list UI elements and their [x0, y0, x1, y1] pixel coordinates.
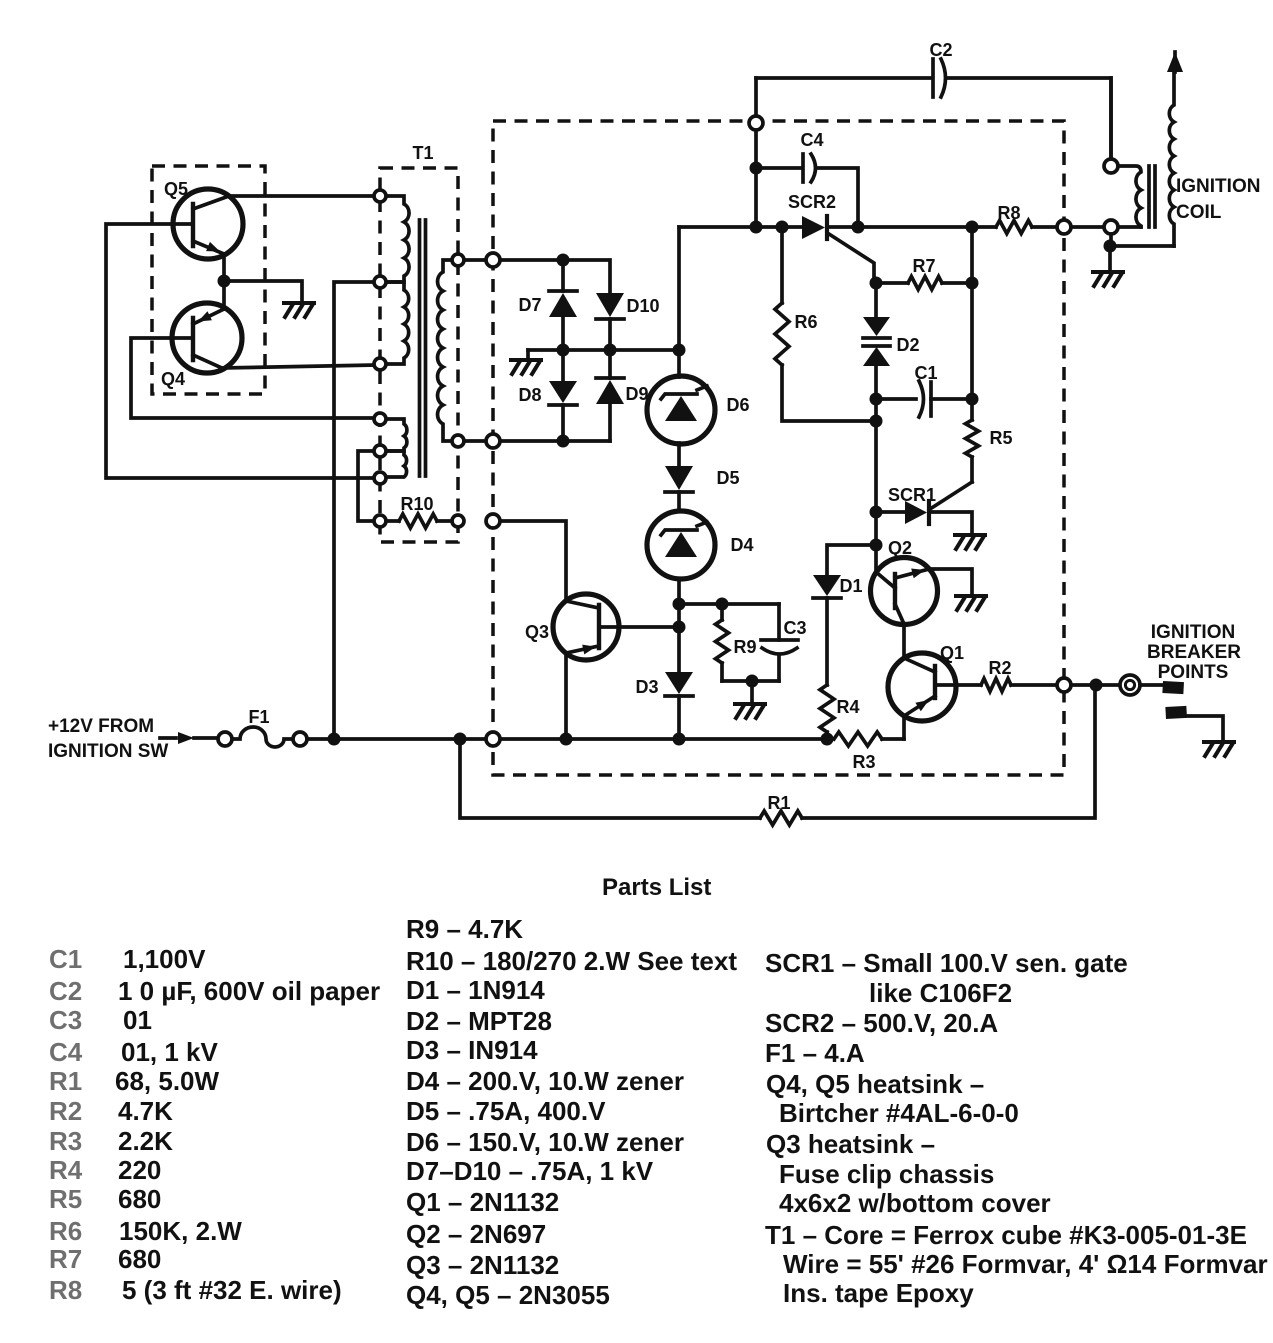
wire D6 to D5 [677, 443, 681, 466]
resistor R10 [386, 519, 399, 523]
svg-text:D3: D3 [635, 677, 658, 697]
wire bridge mid to ground [526, 350, 530, 359]
dashed enclosure around Q4 Q5 [152, 166, 265, 394]
T1 core [418, 220, 422, 476]
node R7 right [966, 277, 979, 290]
fuse F1 [218, 732, 232, 746]
svg-text:01: 01 [123, 1005, 152, 1035]
svg-text:2.2K: 2.2K [118, 1126, 173, 1156]
svg-text:D6: D6 [726, 395, 749, 415]
svg-text:D9: D9 [625, 384, 648, 404]
svg-text:D7–D10 – .75A, 1 kV: D7–D10 – .75A, 1 kV [406, 1156, 654, 1186]
svg-text:D7: D7 [518, 295, 541, 315]
ground (breaker points) [1204, 742, 1234, 756]
node R7 left [870, 277, 883, 290]
svg-text:R7: R7 [912, 256, 935, 276]
wire T1 primary center tap to +12V rail [334, 282, 374, 739]
svg-text:C1: C1 [914, 363, 937, 383]
wire +12V rail [307, 737, 486, 741]
resistor R8 [996, 221, 1032, 234]
svg-text:680: 680 [118, 1184, 161, 1214]
svg-text:SCR2: SCR2 [788, 192, 836, 212]
ground (R9/C3) [735, 704, 765, 718]
wire emitter junction to ground [224, 281, 302, 302]
high tension arrow [1167, 52, 1183, 72]
diode D3 [665, 672, 693, 694]
svg-text:SCR1 – Small 100.V sen. gate: SCR1 – Small 100.V sen. gate [765, 948, 1128, 978]
svg-text:R4: R4 [836, 697, 859, 717]
svg-text:R7: R7 [49, 1244, 82, 1274]
svg-text:01, 1 kV: 01, 1 kV [121, 1037, 219, 1067]
svg-text:Q4: Q4 [161, 369, 185, 389]
wire lower contact to ground [1186, 716, 1223, 740]
node D1 branch [870, 539, 883, 552]
wire coil secondary return [1110, 244, 1174, 248]
svg-text:D10: D10 [626, 296, 659, 316]
ground (bridge) [511, 360, 541, 374]
svg-text:68, 5.0W: 68, 5.0W [115, 1066, 220, 1096]
breaker lower contact [1165, 706, 1187, 719]
wire main column [874, 399, 878, 512]
svg-text:R3: R3 [49, 1126, 82, 1156]
boundary terminal top [749, 116, 763, 130]
svg-text:Q1 – 2N1132: Q1 – 2N1132 [406, 1187, 559, 1217]
node D7-D8 [557, 344, 570, 357]
svg-text:R10 – 180/270 2.W See text: R10 – 180/270 2.W See text [406, 946, 737, 976]
svg-text:F1 – 4.A: F1 – 4.A [765, 1038, 865, 1068]
svg-text:Q3 – 2N1132: Q3 – 2N1132 [406, 1250, 559, 1280]
T1 primary winding upper [386, 196, 409, 282]
svg-text:220: 220 [118, 1155, 161, 1185]
node C4 branch [750, 162, 763, 175]
svg-text:+12V FROM: +12V FROM [48, 716, 154, 737]
wire R1 loop [460, 739, 760, 818]
wire R7 column [970, 227, 974, 283]
wire zener chain top from SCR2 anode line [677, 227, 681, 350]
svg-text:5 (3 ft #32 E. wire): 5 (3 ft #32 E. wire) [122, 1275, 342, 1305]
svg-text:COIL: COIL [1176, 202, 1222, 223]
zener D4 [647, 511, 715, 579]
wire D7 branch top [561, 260, 565, 291]
node R9 top [716, 598, 729, 611]
capacitor C1 [876, 397, 916, 401]
svg-text:R2: R2 [988, 658, 1011, 678]
wire feedback center tap bracket to R10 [358, 451, 374, 521]
boundary terminal SCR2 row [1057, 220, 1071, 234]
node ground stub [746, 675, 759, 688]
node C1 right / R5 top [966, 393, 979, 406]
wire R5 to SCR1 gate [930, 482, 972, 509]
transistor Q1 [888, 653, 956, 721]
svg-text:IGNITION SW: IGNITION SW [48, 741, 168, 762]
svg-text:150K, 2.W: 150K, 2.W [119, 1216, 242, 1246]
wire Q5/Q4 emitter junction [222, 254, 226, 309]
wire bridge mid row [561, 317, 565, 350]
wire R9 C3 bottom [722, 679, 779, 683]
resistor R2 [981, 679, 1011, 692]
wire chain node to D3 [677, 604, 681, 672]
node D10-D9 [604, 344, 617, 357]
svg-text:T1 – Core = Ferrox cube #K3-00: T1 – Core = Ferrox cube #K3-005-01-3E [765, 1220, 1247, 1250]
resistor R7 [876, 281, 908, 285]
resistor R1 [760, 811, 802, 825]
svg-text:R4: R4 [49, 1155, 83, 1185]
wire column to Q2 [874, 512, 878, 572]
node C1 left [870, 393, 883, 406]
svg-text:R6: R6 [794, 312, 817, 332]
wire Q5 base to transformer bottom winding [106, 224, 374, 478]
svg-text:BREAKER: BREAKER [1147, 642, 1241, 663]
svg-text:F1: F1 [248, 707, 269, 727]
SCR2 [802, 216, 825, 239]
node rail R1 drop [454, 733, 467, 746]
svg-text:Parts List: Parts List [602, 874, 711, 901]
node emitter junction [218, 275, 231, 288]
node C4 right leg [852, 221, 865, 234]
wire terminal to points [1140, 683, 1164, 687]
svg-text:Birtcher #4AL-6-0-0: Birtcher #4AL-6-0-0 [779, 1098, 1019, 1128]
node rail D1/R4 [821, 733, 834, 746]
node R6 top [776, 221, 789, 234]
boundary terminal secondary bottom [486, 434, 500, 448]
svg-text:Q5: Q5 [164, 179, 188, 199]
wire C2/C4 vertical [754, 78, 758, 116]
svg-text:D3 – IN914: D3 – IN914 [406, 1035, 538, 1065]
ignition coil core [1147, 166, 1151, 227]
svg-text:C3: C3 [783, 618, 806, 638]
node R1 riser [1090, 679, 1103, 692]
resistor R4 [820, 685, 834, 732]
resistor R6 [780, 227, 784, 303]
ground (ignition coil) [1093, 272, 1123, 286]
svg-text:C2: C2 [929, 40, 952, 60]
svg-text:D2: D2 [896, 335, 919, 355]
wire D5 to D4 [677, 492, 681, 511]
terminal breaker points [1120, 675, 1140, 695]
boundary terminal R10 row [486, 514, 500, 528]
capacitor C3 [777, 604, 781, 640]
wire Q4 base to transformer feedback winding [131, 338, 374, 418]
wire primary bottom to ground node [1109, 234, 1113, 246]
transistor Q2 [871, 558, 938, 625]
svg-text:R2: R2 [49, 1096, 82, 1126]
diode D7 [549, 289, 577, 293]
T1 feedback winding upper [386, 419, 407, 451]
svg-text:R8: R8 [997, 203, 1020, 223]
svg-text:R3: R3 [852, 752, 875, 772]
wire to ground [750, 681, 754, 703]
node rail Q3 emitter [560, 733, 573, 746]
wire D4 to node [677, 579, 681, 604]
T1 primary winding lower [386, 282, 409, 364]
svg-text:Q4, Q5 heatsink –: Q4, Q5 heatsink – [766, 1069, 984, 1099]
svg-text:1,100V: 1,100V [123, 944, 206, 974]
main circuit dashed enclosure [493, 121, 1064, 775]
svg-text:D8: D8 [518, 385, 541, 405]
wire bridge bottom row [464, 439, 487, 443]
trigger diode D2 [874, 283, 878, 317]
zener D6 [647, 376, 715, 444]
wire Q5 collector to T1 primary top [229, 194, 374, 198]
svg-text:R1: R1 [767, 793, 790, 813]
wire T1 secondary top to bridge [464, 258, 487, 262]
svg-text:R8: R8 [49, 1275, 82, 1305]
svg-text:Q4, Q5 – 2N3055: Q4, Q5 – 2N3055 [406, 1280, 610, 1310]
svg-text:1 0 µF, 600V oil paper: 1 0 µF, 600V oil paper [118, 976, 380, 1006]
+12V input arrow [160, 736, 176, 740]
ground (Q2) [956, 596, 986, 610]
svg-text:D1: D1 [839, 576, 862, 596]
node coil ground [1104, 240, 1117, 253]
svg-text:Fuse clip chassis: Fuse clip chassis [779, 1159, 994, 1189]
svg-text:680: 680 [118, 1244, 161, 1274]
T1 secondary winding [438, 260, 452, 441]
SCR1 [876, 510, 905, 514]
node rail center-tap riser [328, 733, 341, 746]
transistor Q5 [173, 189, 243, 259]
svg-text:R10: R10 [400, 494, 433, 514]
resistor R3 [834, 732, 882, 746]
node R6 join [870, 415, 883, 428]
diode D10 [596, 293, 624, 317]
node chain / R9 C3 branch [673, 598, 686, 611]
svg-text:C1: C1 [49, 944, 82, 974]
svg-text:Q2 – 2N697: Q2 – 2N697 [406, 1219, 546, 1249]
svg-text:POINTS: POINTS [1158, 662, 1229, 683]
svg-text:Q3 heatsink –: Q3 heatsink – [766, 1129, 935, 1159]
svg-text:R9 – 4.7K: R9 – 4.7K [406, 914, 523, 944]
T1 terminals right [452, 254, 464, 266]
svg-text:C4: C4 [49, 1037, 83, 1067]
svg-text:Q1: Q1 [940, 643, 964, 663]
svg-text:IGNITION: IGNITION [1176, 176, 1260, 197]
svg-text:D4 – 200.V, 10.W zener: D4 – 200.V, 10.W zener [406, 1066, 684, 1096]
svg-text:Q2: Q2 [888, 538, 912, 558]
wire D1 to R4 [825, 598, 829, 685]
wire D3 to rail [677, 696, 681, 739]
diode D9 [608, 350, 612, 378]
node SCR1 anode [870, 506, 883, 519]
wire SCR2 gate [829, 234, 874, 283]
svg-text:Q3: Q3 [525, 622, 549, 642]
transformer T1 dashed box [380, 168, 458, 542]
wire Q3 base to chain [619, 625, 679, 629]
wire node to R9 C3 [679, 602, 779, 606]
svg-text:D1 – 1N914: D1 – 1N914 [406, 975, 545, 1005]
wire coil ground stub [1108, 246, 1112, 271]
boundary terminal secondary top [486, 253, 500, 267]
svg-text:C4: C4 [800, 130, 823, 150]
svg-text:R1: R1 [49, 1066, 82, 1096]
svg-text:D4: D4 [730, 535, 753, 555]
diode D1 [813, 575, 841, 596]
svg-text:IGNITION: IGNITION [1151, 622, 1235, 643]
wire to ignition coil [1071, 225, 1104, 229]
svg-text:R6: R6 [49, 1216, 82, 1246]
wire Q3 emitter to rail [564, 653, 568, 739]
wire Q4 collector to T1 primary bottom [222, 365, 374, 368]
transistor Q3 [553, 594, 619, 660]
resistor R9 [720, 604, 724, 620]
wire Q2 collector to Q1 base [902, 624, 906, 658]
boundary terminal R2 row [1057, 678, 1071, 692]
svg-text:Wire = 55' #26 Formvar, 4' Ω14: Wire = 55' #26 Formvar, 4' Ω14 Formvar [783, 1249, 1268, 1279]
node R7 column top [966, 221, 979, 234]
wire Q1 collector [956, 683, 981, 687]
T1 feedback winding lower [386, 451, 407, 477]
diode D8 [561, 350, 565, 381]
svg-text:like C106F2: like C106F2 [869, 978, 1012, 1008]
ignition coil primary [1109, 78, 1113, 159]
svg-text:D6 – 150.V, 10.W zener: D6 – 150.V, 10.W zener [406, 1127, 684, 1157]
node bridge mid to zener chain [673, 344, 686, 357]
node C2/C4 drop [750, 221, 763, 234]
node bridge top D7 [557, 254, 570, 267]
wire SCR1 cathode to ground [929, 512, 972, 533]
wire Q2 emitter to ground [929, 569, 972, 594]
boundary terminal rail [486, 732, 500, 746]
ignition coil secondary [1169, 72, 1174, 246]
wire to breaker points [1071, 683, 1120, 687]
svg-text:T1: T1 [412, 143, 433, 163]
wire Q1 emitter to rail [902, 716, 906, 739]
transistor Q4 [172, 303, 242, 373]
svg-text:R9: R9 [733, 637, 756, 657]
resistor R5 [970, 399, 974, 420]
ground (Q4/Q5 emitters) [284, 303, 314, 317]
svg-text:C2: C2 [49, 976, 82, 1006]
node rail zener chain [673, 733, 686, 746]
svg-text:R5: R5 [989, 428, 1012, 448]
capacitor C4 [756, 166, 800, 170]
svg-text:C3: C3 [49, 1005, 82, 1035]
diode D5 [665, 466, 693, 490]
svg-text:Ins. tape Epoxy: Ins. tape Epoxy [783, 1278, 974, 1308]
wire R10 row to Q3 collector [500, 521, 566, 601]
svg-text:SCR2 – 500.V, 20.A: SCR2 – 500.V, 20.A [765, 1008, 998, 1038]
T1 terminals left [374, 190, 386, 202]
wire SCR2 anode row [679, 225, 802, 229]
svg-text:D2 – MPT28: D2 – MPT28 [406, 1006, 552, 1036]
node bridge bottom D8 [557, 435, 570, 448]
svg-text:D5: D5 [716, 468, 739, 488]
breaker upper contact [1162, 681, 1184, 694]
svg-text:4x6x2 w/bottom cover: 4x6x2 w/bottom cover [779, 1188, 1051, 1218]
wire D1 branch [827, 545, 876, 575]
svg-text:4.7K: 4.7K [118, 1096, 173, 1126]
svg-text:R5: R5 [49, 1184, 82, 1214]
svg-text:D5 – .75A, 400.V: D5 – .75A, 400.V [406, 1096, 606, 1126]
ground (SCR1) [955, 535, 985, 549]
node Q3 base tap [673, 621, 686, 634]
svg-text:SCR1: SCR1 [888, 485, 936, 505]
capacitor C2 top wire [756, 76, 930, 80]
